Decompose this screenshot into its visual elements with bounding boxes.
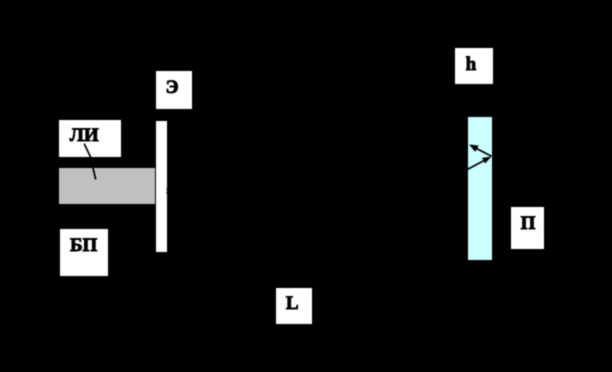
label box П (plate label): [511, 207, 544, 249]
label box ЛИ (laser label): [59, 120, 120, 157]
label box Э (screen label): [156, 71, 192, 109]
reflected ray arrow (points up-left from plate rear face): [469, 145, 492, 157]
glass plate (light cyan rectangle): [468, 117, 492, 260]
laser body (gray rectangle): [59, 168, 155, 203]
beam mark on screen edge: [166, 189, 167, 194]
label box h (plate thickness label): [455, 48, 493, 84]
incident ray arrow (points up-right to plate rear face): [468, 157, 492, 170]
label box L (distance label): [276, 288, 312, 324]
screen (white vertical bar): [156, 121, 167, 252]
label box БП (power supply label): [60, 229, 108, 276]
pointer line from ЛИ label to laser: [84, 144, 96, 180]
